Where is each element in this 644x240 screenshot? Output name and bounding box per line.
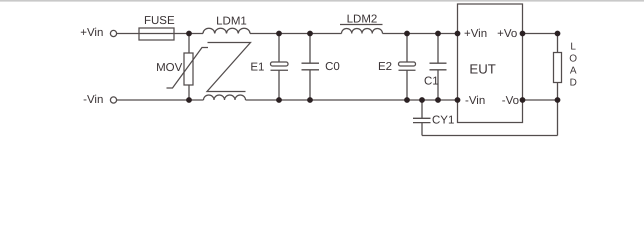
svg-text:D: D: [570, 77, 577, 88]
wire +Vo to load: [523, 33, 558, 35]
wire E2 upper lead: [406, 34, 408, 63]
svg-text:LDM1: LDM1: [216, 15, 247, 27]
top border line: [0, 0, 644, 2]
svg-text:E2: E2: [378, 61, 392, 73]
load resistor: [554, 53, 562, 83]
wire C1 lower lead: [437, 70, 439, 100]
wire CY1 upper lead: [421, 100, 423, 118]
capacitor E2 (electrolytic): [399, 62, 416, 70]
svg-text:E1: E1: [250, 61, 264, 73]
junction load top: [555, 31, 561, 37]
varistor MOV: [167, 48, 209, 89]
capacitor C0: [302, 63, 320, 70]
terminal -Vin circle: [110, 97, 116, 103]
EUT box: [458, 4, 523, 123]
wire top rail: LDM2 to EUT: [383, 33, 458, 35]
junction fuse/MOV top: [186, 31, 192, 37]
wire MOV branch lower: [188, 85, 190, 100]
svg-text:+Vin: +Vin: [464, 28, 487, 40]
wire CY1 lower lead: [421, 123, 423, 136]
wire MOV branch upper: [188, 34, 190, 54]
junction C0 top: [307, 31, 313, 37]
wire C0 upper lead: [309, 34, 311, 64]
wire CY1 return bottom: [422, 135, 558, 137]
svg-text:C1: C1: [424, 76, 439, 88]
wire E1 upper lead: [278, 34, 280, 63]
terminal EUT -Vo: [520, 97, 526, 103]
capacitor E1 (electrolytic): [271, 62, 289, 70]
common-mode choke LDM1 core Z symbol: [207, 43, 251, 92]
svg-text:LDM2: LDM2: [347, 13, 378, 25]
wire load lower lead: [557, 83, 559, 101]
wire top rail: terminal to fuse: [117, 33, 139, 35]
junction E2 bottom: [404, 97, 410, 103]
junction C1 bottom: [435, 97, 441, 103]
wire E1 lower lead: [278, 70, 280, 100]
wire E2 lower lead: [406, 70, 408, 100]
capacitor CY1: [413, 118, 431, 122]
svg-text:L: L: [570, 42, 576, 53]
svg-text:-Vin: -Vin: [465, 95, 485, 107]
terminal EUT +Vin: [455, 31, 461, 37]
svg-text:-Vo: -Vo: [502, 95, 519, 107]
junction load bottom: [555, 97, 561, 103]
svg-text:EUT: EUT: [469, 62, 495, 77]
junction E1 bottom: [276, 97, 282, 103]
wire C1 upper lead: [437, 34, 439, 64]
svg-text:CY1: CY1: [432, 114, 454, 126]
terminal EUT -Vin: [455, 97, 461, 103]
svg-text:C0: C0: [325, 61, 340, 73]
common-mode choke LDM1 bottom winding: [204, 95, 246, 100]
wire bottom rail: LDM1 to EUT: [246, 99, 458, 101]
wire load upper lead: [557, 34, 559, 53]
junction MOV bottom: [186, 97, 192, 103]
svg-text:O: O: [569, 54, 577, 65]
svg-text:+Vin: +Vin: [80, 27, 103, 39]
junction CY1 tap: [419, 97, 425, 103]
junction E2 top: [404, 31, 410, 37]
wire -Vo to load: [523, 99, 558, 101]
label LOAD: [569, 42, 577, 89]
common-mode choke LDM1 top winding: [203, 28, 250, 33]
terminal +Vin circle: [110, 30, 116, 36]
wire C0 lower lead: [309, 70, 311, 100]
capacitor C1: [430, 63, 447, 70]
junction C1 top: [435, 31, 441, 37]
junction C0 bottom: [307, 97, 313, 103]
svg-text:-Vin: -Vin: [83, 94, 103, 106]
svg-text:A: A: [570, 66, 577, 77]
junction E1 top: [276, 31, 282, 37]
fuse F1: [139, 28, 174, 40]
svg-text:FUSE: FUSE: [144, 15, 175, 27]
inductor LDM2: [342, 29, 383, 34]
svg-text:+Vo: +Vo: [497, 28, 517, 40]
inductor LDM2 core bar: [340, 24, 383, 26]
wire top rail: fuse to LDM1 (junction at 189): [174, 33, 203, 35]
wire top rail: LDM1 to LDM2: [250, 33, 342, 35]
wire bottom rail: terminal to LDM1 bottom coil: [117, 99, 204, 101]
svg-text:MOV: MOV: [156, 62, 183, 74]
terminal EUT +Vo: [520, 31, 526, 37]
wire CY1 return riser: [557, 100, 559, 136]
